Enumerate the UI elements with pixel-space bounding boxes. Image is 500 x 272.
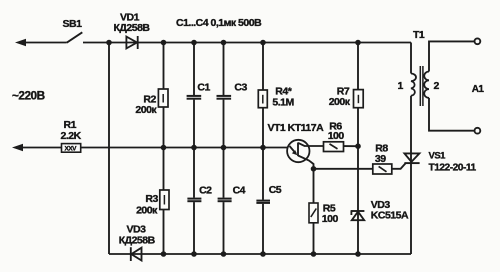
node: R6/R7 junction <box>355 143 361 149</box>
resistor R3 <box>160 190 169 210</box>
svg-text:КД258В: КД258В <box>114 22 151 34</box>
node: R5 bottom junction <box>311 251 317 257</box>
node: C1/C2 middle junction <box>191 145 197 151</box>
switch SB1 <box>67 32 83 42</box>
node: R4/C5/emitter junction <box>260 145 266 151</box>
svg-text:2.2K: 2.2K <box>61 130 82 142</box>
wire: vertical branch of C3/C4 <box>223 43 225 255</box>
svg-text:1: 1 <box>398 80 404 92</box>
node: R4 top junction <box>260 40 266 46</box>
transformer T1 winding 1 <box>411 74 416 96</box>
capacitor C3 <box>217 96 232 99</box>
wire: winding1 to thyristor to bottom rail <box>410 96 412 254</box>
svg-text:~220В: ~220В <box>12 89 45 103</box>
wire: base2 lead to R6 <box>298 143 324 146</box>
wire: secondary top lead <box>429 41 475 71</box>
resistor R4 <box>258 90 267 108</box>
wire: thyristor/T1-primary vertical branch <box>410 43 412 74</box>
node: zener bottom junction <box>355 251 361 257</box>
svg-text:A1: A1 <box>472 84 485 95</box>
wire: R6 to R7 branch <box>344 145 359 147</box>
svg-text:C5: C5 <box>269 184 282 196</box>
resistor R2 <box>158 89 168 107</box>
svg-text:VT1 KT117A: VT1 KT117A <box>268 122 325 134</box>
resistor R7 <box>354 90 364 108</box>
svg-text:C1: C1 <box>197 82 210 94</box>
svg-text:39: 39 <box>375 153 386 165</box>
svg-text:2: 2 <box>434 80 440 92</box>
node: C3 top junction <box>221 40 227 46</box>
terminal: output bottom <box>475 128 481 134</box>
svg-text:100: 100 <box>322 213 339 225</box>
wire: bottom rail <box>109 253 411 255</box>
diode VD3 (bottom, КД258В) <box>131 247 142 261</box>
node: C1 top junction <box>191 40 197 46</box>
wire: mains feed top-left with arrow <box>15 39 67 47</box>
wire: secondary bottom lead <box>429 98 475 131</box>
node: C5 bottom junction <box>260 251 266 257</box>
wire: R8 to thyristor gate <box>392 163 406 169</box>
node: R7 top junction <box>355 40 361 46</box>
svg-text:KC515A: KC515A <box>371 209 409 221</box>
svg-text:200к: 200к <box>135 104 157 116</box>
capacitor C1 <box>187 96 202 99</box>
node: C4 bottom junction <box>221 251 227 257</box>
svg-text:C2: C2 <box>199 185 212 197</box>
svg-text:КД258В: КД258В <box>119 234 156 246</box>
transistor VT1 (unijunction) <box>287 140 309 162</box>
svg-text:5.1M: 5.1M <box>272 96 294 108</box>
wire: vertical branch of C1/C2 <box>193 43 195 255</box>
svg-text:C4: C4 <box>233 185 246 197</box>
zener diode VD3 (KC515A) <box>351 211 365 220</box>
capacitor C5 <box>256 201 270 203</box>
capacitor C2 <box>187 199 201 202</box>
resistor R1 <box>62 144 81 153</box>
wire: left vertical branch <box>108 43 110 255</box>
terminal: output top <box>475 38 481 44</box>
wire: base1 junction to R8 <box>314 168 373 170</box>
svg-text:200к: 200к <box>329 96 351 108</box>
resistor R5 <box>309 203 318 223</box>
svg-text:100: 100 <box>328 130 345 142</box>
wire: vertical branch of R4/C5 <box>262 43 264 255</box>
node: R3 bottom junction <box>161 251 167 257</box>
svg-text:T1: T1 <box>413 29 425 41</box>
node: R2/R3 middle junction <box>161 145 167 151</box>
diode VD1 <box>126 36 137 49</box>
transformer T1 winding 2 <box>424 72 429 98</box>
node: R2 top junction <box>161 40 167 46</box>
svg-text:T122-20-11: T122-20-11 <box>429 163 477 174</box>
transformer T1 core <box>420 66 423 106</box>
svg-text:C1...C4 0,1мк 500В: C1...C4 0,1мк 500В <box>176 17 262 29</box>
wire: R7/zener vertical branch <box>357 43 359 255</box>
node: C2 bottom junction <box>191 251 197 257</box>
wire: base1 lead down <box>298 156 314 169</box>
svg-text:200к: 200к <box>136 204 158 216</box>
resistor R8 <box>373 164 392 174</box>
wire: middle rail with arrow <box>12 144 288 152</box>
wire: top rail <box>83 42 411 44</box>
svg-text:C3: C3 <box>234 82 247 94</box>
node: top rail / left branch junction <box>106 40 112 46</box>
node: C3/C4 middle junction <box>221 145 227 151</box>
thyristor VS1 <box>404 153 419 163</box>
svg-text:XXV: XXV <box>65 146 78 153</box>
svg-text:VS1: VS1 <box>429 151 447 162</box>
wire: R5 branch vertical <box>313 169 315 254</box>
wire: vertical branch of R2/R3 <box>163 43 165 255</box>
svg-text:SB1: SB1 <box>63 18 83 30</box>
node: base1 junction <box>311 166 317 172</box>
svg-text:R3: R3 <box>145 193 158 205</box>
capacitor C4 <box>218 199 232 202</box>
resistor R6 <box>324 142 344 152</box>
